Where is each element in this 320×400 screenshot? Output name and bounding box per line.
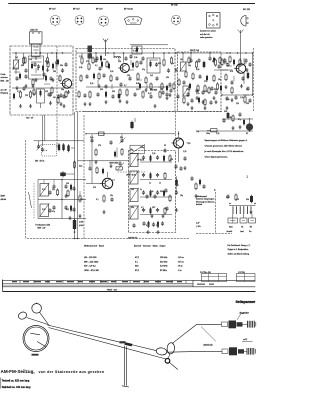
value label [29, 59, 32, 61]
svg-text:Ansicht von unten: Ansicht von unten [200, 30, 216, 33]
value label [206, 91, 208, 93]
label FM Tuner [190, 50, 199, 52]
coil L3 [114, 53, 121, 58]
dashed small vertical [33, 183, 35, 219]
label LSB 173 [30, 30, 39, 32]
electrolytic C42 [67, 144, 69, 152]
digit 1 mark [247, 175, 249, 179]
capacitor C19 [225, 96, 228, 109]
value label [60, 65, 63, 67]
wire (tuner top bus) [12, 52, 72, 54]
label 1uF [196, 223, 201, 229]
resistor R240 [239, 59, 241, 67]
tuning drum inner [25, 327, 48, 350]
svg-text:39k: 39k [212, 61, 215, 63]
small comp row [233, 206, 251, 214]
value label [110, 71, 113, 73]
resistor R316 [235, 194, 237, 202]
wire segment [130, 60, 132, 65]
value label [141, 207, 144, 209]
svg-text:Ferrit-: Ferrit- [1, 73, 7, 76]
svg-text:Eingang: Eingang [1, 93, 8, 95]
value label [186, 89, 190, 91]
diode D3 on wire [73, 219, 84, 231]
value label [79, 56, 82, 58]
svg-text:BF 167: BF 167 [73, 9, 81, 11]
value label [45, 61, 48, 63]
svg-text:82: 82 [164, 145, 166, 147]
junction node [226, 52, 227, 53]
svg-text:6,8k: 6,8k [196, 69, 199, 71]
capacitor C110 [124, 56, 127, 60]
svg-text:ant. 30: ant. 30 [1, 89, 8, 92]
junction node [237, 52, 238, 53]
svg-text:auf die Löt-: auf die Löt- [200, 33, 210, 36]
ground symbol [144, 88, 147, 92]
value label [98, 145, 101, 147]
capacitor C14 [165, 92, 168, 96]
table row LW [84, 257, 184, 259]
resistor R13 [125, 89, 128, 104]
wire to bus [71, 147, 75, 149]
ground symbol [150, 214, 153, 218]
svg-text:4,7: 4,7 [124, 85, 127, 87]
svg-text:0,47: 0,47 [148, 93, 152, 95]
dashed enclosure (AF board) [129, 151, 176, 233]
value label [80, 199, 83, 201]
junction node [15, 52, 16, 53]
label MW-UKW [110, 163, 119, 165]
ground symbol [231, 126, 234, 130]
svg-text:2 B TB(+–30): 2 B TB(+–30) [200, 272, 211, 274]
IF transformer T1 (dark can) [88, 46, 93, 59]
junction node [40, 52, 41, 53]
dashed horizontal y233 [196, 233, 232, 235]
value label [140, 189, 142, 191]
capacitor C22 [238, 112, 241, 116]
dial scale right block B [237, 274, 256, 282]
svg-text:MW · LW: MW · LW [38, 228, 46, 230]
capacitor C222 [129, 54, 132, 58]
label 504-507A [35, 159, 45, 162]
dashed link [118, 171, 146, 173]
capacitor C44 [88, 160, 91, 171]
dashed enclosure (IF amplifier board) [76, 49, 175, 112]
svg-text:je nach Exemplar bis ± 10 % ab: je nach Exemplar bis ± 10 % abweichen. [204, 150, 245, 153]
svg-text:0,47: 0,47 [33, 93, 37, 95]
drum spoke B [37, 342, 46, 347]
svg-text:270: 270 [98, 145, 101, 147]
wire mid horizontal [86, 133, 176, 135]
svg-text:2,2k: 2,2k [216, 133, 219, 135]
dashed boundary under IF boxes [83, 111, 222, 113]
wire (IF lower bus) [86, 86, 172, 88]
svg-text:150p: 150p [186, 89, 190, 91]
resistor R101 [78, 91, 80, 99]
resistor R25 [78, 191, 81, 218]
electrolytic C40 [58, 143, 60, 151]
svg-text:Laut.: Laut. [240, 230, 244, 233]
resistor R166 [110, 75, 112, 83]
cord from P-left [27, 318, 49, 325]
svg-text:1,2k: 1,2k [183, 151, 186, 153]
svg-text:22k: 22k [118, 61, 121, 63]
ground symbol [190, 106, 193, 110]
svg-text:15k: 15k [131, 189, 134, 191]
svg-text:5,6k: 5,6k [226, 99, 229, 101]
junction node [51, 52, 52, 53]
capacitor C233 (electrolytic) [198, 97, 200, 104]
svg-text:39k: 39k [120, 137, 123, 139]
svg-text:1.2k: 1.2k [79, 67, 82, 69]
value label [21, 65, 24, 67]
svg-text:330: 330 [53, 71, 56, 73]
value label [246, 133, 248, 135]
ground symbol [83, 102, 86, 106]
resistor R213 [47, 61, 49, 69]
ground symbol [24, 84, 27, 88]
wire segment [118, 56, 120, 61]
connector box J3 [249, 218, 256, 223]
svg-text:0,1: 0,1 [96, 199, 99, 201]
capacitor C290 (electrolytic) [199, 179, 201, 186]
IF transformer T2 [147, 53, 160, 73]
capacitor C236 [209, 100, 212, 104]
svg-text:270: 270 [236, 199, 239, 201]
IF transformer LSB 173 block [30, 32, 43, 60]
value label [226, 99, 229, 101]
svg-text:1n: 1n [140, 189, 142, 191]
capacitor C17 [195, 88, 198, 99]
svg-text:Wellenbereich · Band: Wellenbereich · Band [84, 244, 105, 247]
value label [142, 69, 145, 71]
resistor R28 [96, 167, 98, 175]
value label [146, 225, 150, 227]
ground symbol [165, 96, 168, 100]
junction node [107, 52, 108, 53]
svg-text:10µ: 10µ [218, 79, 221, 81]
label am-fm [128, 236, 138, 239]
tensioner 2 clamp [222, 347, 237, 355]
svg-text:BF Grado: BF Grado [124, 8, 134, 11]
value label [160, 191, 163, 193]
cord from P-top [40, 312, 50, 326]
junction node [95, 52, 96, 53]
ground symbol [146, 230, 149, 234]
potentiometer P3 [182, 85, 190, 97]
capacitor C184 (electrolytic) [213, 57, 215, 64]
value label [226, 197, 229, 199]
value label [204, 81, 207, 83]
svg-text:2n2: 2n2 [66, 209, 69, 211]
resistor R10 [170, 57, 172, 65]
capacitor C6 [102, 73, 105, 77]
ground symbol [51, 78, 54, 82]
capacitor C217 [47, 92, 50, 96]
resistor R293 [169, 195, 171, 203]
ground symbol [34, 78, 37, 82]
svg-text:4,7: 4,7 [17, 91, 20, 93]
resistor R14 [142, 91, 144, 99]
resistor R4 [29, 91, 32, 108]
wire segment [158, 86, 164, 88]
dashed vertical right x215 [214, 192, 216, 234]
tube socket V3 [99, 16, 109, 27]
wire segment [223, 58, 225, 63]
transistor Q1 [60, 79, 71, 88]
tube socket V6 (D-shape) [241, 16, 249, 27]
svg-text:270: 270 [204, 81, 207, 83]
capacitor C257 [49, 76, 52, 80]
capacitor C274 [90, 138, 93, 142]
svg-text:504 · 507 A: 504 · 507 A [35, 159, 45, 162]
dark cap C21 [227, 112, 230, 120]
trimmer C24 [120, 134, 126, 144]
capacitor C43 [60, 171, 74, 177]
capacitor C30 [64, 184, 72, 191]
value label [152, 153, 155, 155]
wire segment [35, 68, 37, 73]
stage row 1 parts [140, 155, 172, 162]
ground symbol [238, 125, 241, 129]
stage row 4 parts [140, 207, 172, 215]
svg-text:KW – 5,9·6,2: KW – 5,9·6,2 [84, 266, 97, 268]
svg-text:10n: 10n [246, 89, 249, 91]
svg-text:0,1: 0,1 [244, 63, 247, 65]
table row UKW [84, 270, 182, 272]
dashed enclosure (FM discriminator) [178, 52, 222, 112]
value label [95, 65, 98, 67]
svg-text:UKW – 87,5·100: UKW – 87,5·100 [84, 270, 100, 272]
junction node [123, 52, 124, 53]
wire Q6 collector [107, 172, 109, 177]
value label [150, 191, 153, 193]
capacitor C170 [161, 90, 164, 94]
svg-text:antenne: antenne [1, 76, 9, 79]
resistor R2 [46, 53, 48, 65]
transistor Q2 [118, 51, 138, 73]
capacitor C278 [109, 140, 112, 144]
FM antenna symbol [103, 39, 108, 57]
ground symbol [46, 68, 49, 72]
resistor R163 [98, 73, 100, 81]
label UKW-M10 [126, 175, 136, 177]
value label [150, 75, 153, 77]
potentiometer P9 [129, 188, 139, 203]
svg-text:(Stahlseil): (Stahlseil) [204, 343, 213, 346]
capacitor C25 [174, 149, 182, 171]
resistor R11 [88, 91, 91, 106]
svg-text:Ferritantenne AM: Ferritantenne AM [36, 224, 51, 227]
capacitor C107 [115, 76, 118, 80]
value label [112, 91, 115, 93]
value label [230, 71, 233, 73]
svg-text:Stahlseil ca. 440 mm lang: Stahlseil ca. 440 mm lang [2, 386, 31, 389]
resistor R17 [214, 59, 216, 67]
svg-text:AM-FM-Seilzug,: AM-FM-Seilzug, [1, 369, 35, 374]
capacitor C220 (electrolytic) [100, 55, 102, 62]
junction dots bottom [74, 238, 78, 239]
value label [45, 91, 48, 93]
svg-text:1 B TDA: 1 B TDA [238, 271, 246, 274]
value label [228, 117, 231, 119]
capacitor C9 [96, 92, 99, 96]
resistor R187 [231, 87, 233, 95]
ground symbol [203, 106, 206, 110]
wire segment [146, 84, 148, 89]
capacitor C18 [210, 86, 213, 90]
ground symbol [186, 102, 189, 106]
wire segment [226, 65, 232, 67]
resistor R237 [221, 59, 223, 67]
wire ferrite horizontal [34, 140, 85, 142]
junction node [62, 52, 63, 53]
pulley P-left [17, 311, 27, 321]
junction node [175, 52, 176, 53]
value label [52, 189, 55, 191]
capacitor C129 (electrolytic) [206, 75, 208, 82]
value label [224, 111, 227, 113]
transistor Q6 [100, 178, 112, 188]
resistor R196 [24, 57, 26, 65]
resistor R130 [213, 75, 215, 83]
value label [196, 93, 199, 95]
resistor R207 [33, 89, 35, 97]
wire IF can tops [130, 44, 168, 46]
resistor R151 [65, 91, 67, 99]
label under tuner box [26, 118, 34, 120]
svg-text:(· 50v: (· 50v [196, 226, 201, 228]
resistor R6 [88, 59, 90, 71]
diode D2 [247, 72, 249, 80]
dark cap C11 [118, 93, 121, 100]
label Seilhaken [204, 343, 213, 346]
svg-text:2n2: 2n2 [15, 57, 18, 59]
resistor R115 [145, 77, 147, 85]
resistor R8 [136, 73, 139, 86]
svg-text:8,2k: 8,2k [150, 191, 153, 193]
svg-text:10µ: 10µ [196, 131, 199, 133]
resistor R258 [59, 75, 61, 83]
svg-text:Zeiger in li. Endposition: Zeiger in li. Endposition [228, 248, 249, 251]
junction node [209, 52, 210, 53]
resistor R104 [92, 57, 94, 65]
dashed divider x57 [56, 46, 58, 148]
trimmer cluster [117, 161, 124, 170]
junction node [221, 94, 222, 95]
ground symbol [245, 68, 248, 72]
wire vertical x92 [91, 134, 93, 184]
svg-text:MW – 510·1620: MW – 510·1620 [84, 261, 99, 263]
value label [196, 69, 199, 71]
value label [130, 149, 133, 151]
value label [160, 89, 163, 91]
svg-text:0,47: 0,47 [146, 225, 150, 227]
wire Q6 base [86, 183, 101, 185]
capacitor C270 (electrolytic) [243, 119, 245, 126]
value label [224, 63, 227, 65]
svg-text:UKW · M 10: UKW · M 10 [126, 175, 136, 177]
capacitor C149 [59, 93, 62, 97]
svg-text:ca 15: ca 15 [243, 339, 247, 341]
capacitor C128 [198, 74, 201, 78]
tensioner 2 cord [206, 350, 222, 352]
labels under connectors [227, 225, 253, 233]
capacitor C198 (electrolytic) [42, 65, 44, 72]
resistor R169 [150, 83, 152, 91]
electrolytic C41 [62, 143, 64, 151]
ground symbol [212, 96, 215, 100]
resistor R221 [106, 61, 108, 69]
wire pair down-left B [77, 112, 79, 239]
value label [118, 61, 121, 63]
capacitor C12 [133, 92, 136, 96]
value label [53, 71, 56, 73]
svg-text:1,2k: 1,2k [79, 56, 82, 58]
lower cord (long) [49, 328, 167, 360]
connector box J1 [228, 218, 238, 223]
dashed bottom boundary [27, 238, 190, 240]
capacitor C1 [55, 53, 58, 65]
svg-text:680: 680 [158, 63, 161, 65]
svg-text:BU 126: BU 126 [243, 9, 251, 11]
svg-text:5 u: 5 u [135, 261, 138, 263]
capacitor C239 (electrolytic) [233, 59, 235, 66]
ground symbol [174, 68, 177, 72]
ground symbol [62, 104, 65, 108]
anchor post (dark ring) [165, 359, 178, 370]
svg-text:5,6k: 5,6k [42, 189, 45, 191]
label left margin [1, 196, 7, 202]
svg-text:· 3 m: · 3 m [177, 270, 182, 272]
svg-text:56k: 56k [131, 207, 134, 209]
capacitor C164 [104, 84, 107, 88]
capacitor C135 [223, 58, 226, 62]
wire (lower right) [198, 130, 253, 132]
value label [148, 93, 152, 95]
value label [240, 97, 243, 99]
value label [218, 79, 221, 81]
value label [164, 145, 166, 147]
svg-text:· 161 m: · 161 m [177, 257, 184, 259]
capacitor C309 [72, 186, 75, 190]
value label [236, 199, 239, 201]
svg-text:Die Drehkond. Gang u. Z.: Die Drehkond. Gang u. Z. [228, 245, 251, 247]
label BF 167 (socket V1) [49, 9, 57, 11]
svg-text:510 kHz: 510 kHz [160, 261, 167, 263]
value label [110, 195, 113, 197]
capacitor C265 [222, 118, 225, 122]
svg-text:8,2k: 8,2k [90, 83, 93, 85]
capacitor C214 [42, 72, 45, 76]
value label [53, 97, 56, 99]
table row MW [84, 261, 184, 263]
svg-text:· 49 m: · 49 m [177, 266, 183, 268]
value label [15, 57, 18, 59]
value label [180, 195, 183, 197]
resistor R178 [208, 87, 210, 95]
wire mid [38, 199, 86, 201]
ground symbol [230, 98, 233, 102]
svg-text:22k: 22k [236, 103, 239, 105]
label BU 126 (socket V6) [243, 9, 251, 11]
label gain [137, 158, 145, 161]
label Ferritantenne (left margin) [1, 73, 9, 95]
capacitor C284 [183, 156, 186, 160]
svg-text:100: 100 [127, 75, 130, 77]
capacitor C294 [165, 206, 168, 210]
ground symbol [94, 160, 97, 164]
